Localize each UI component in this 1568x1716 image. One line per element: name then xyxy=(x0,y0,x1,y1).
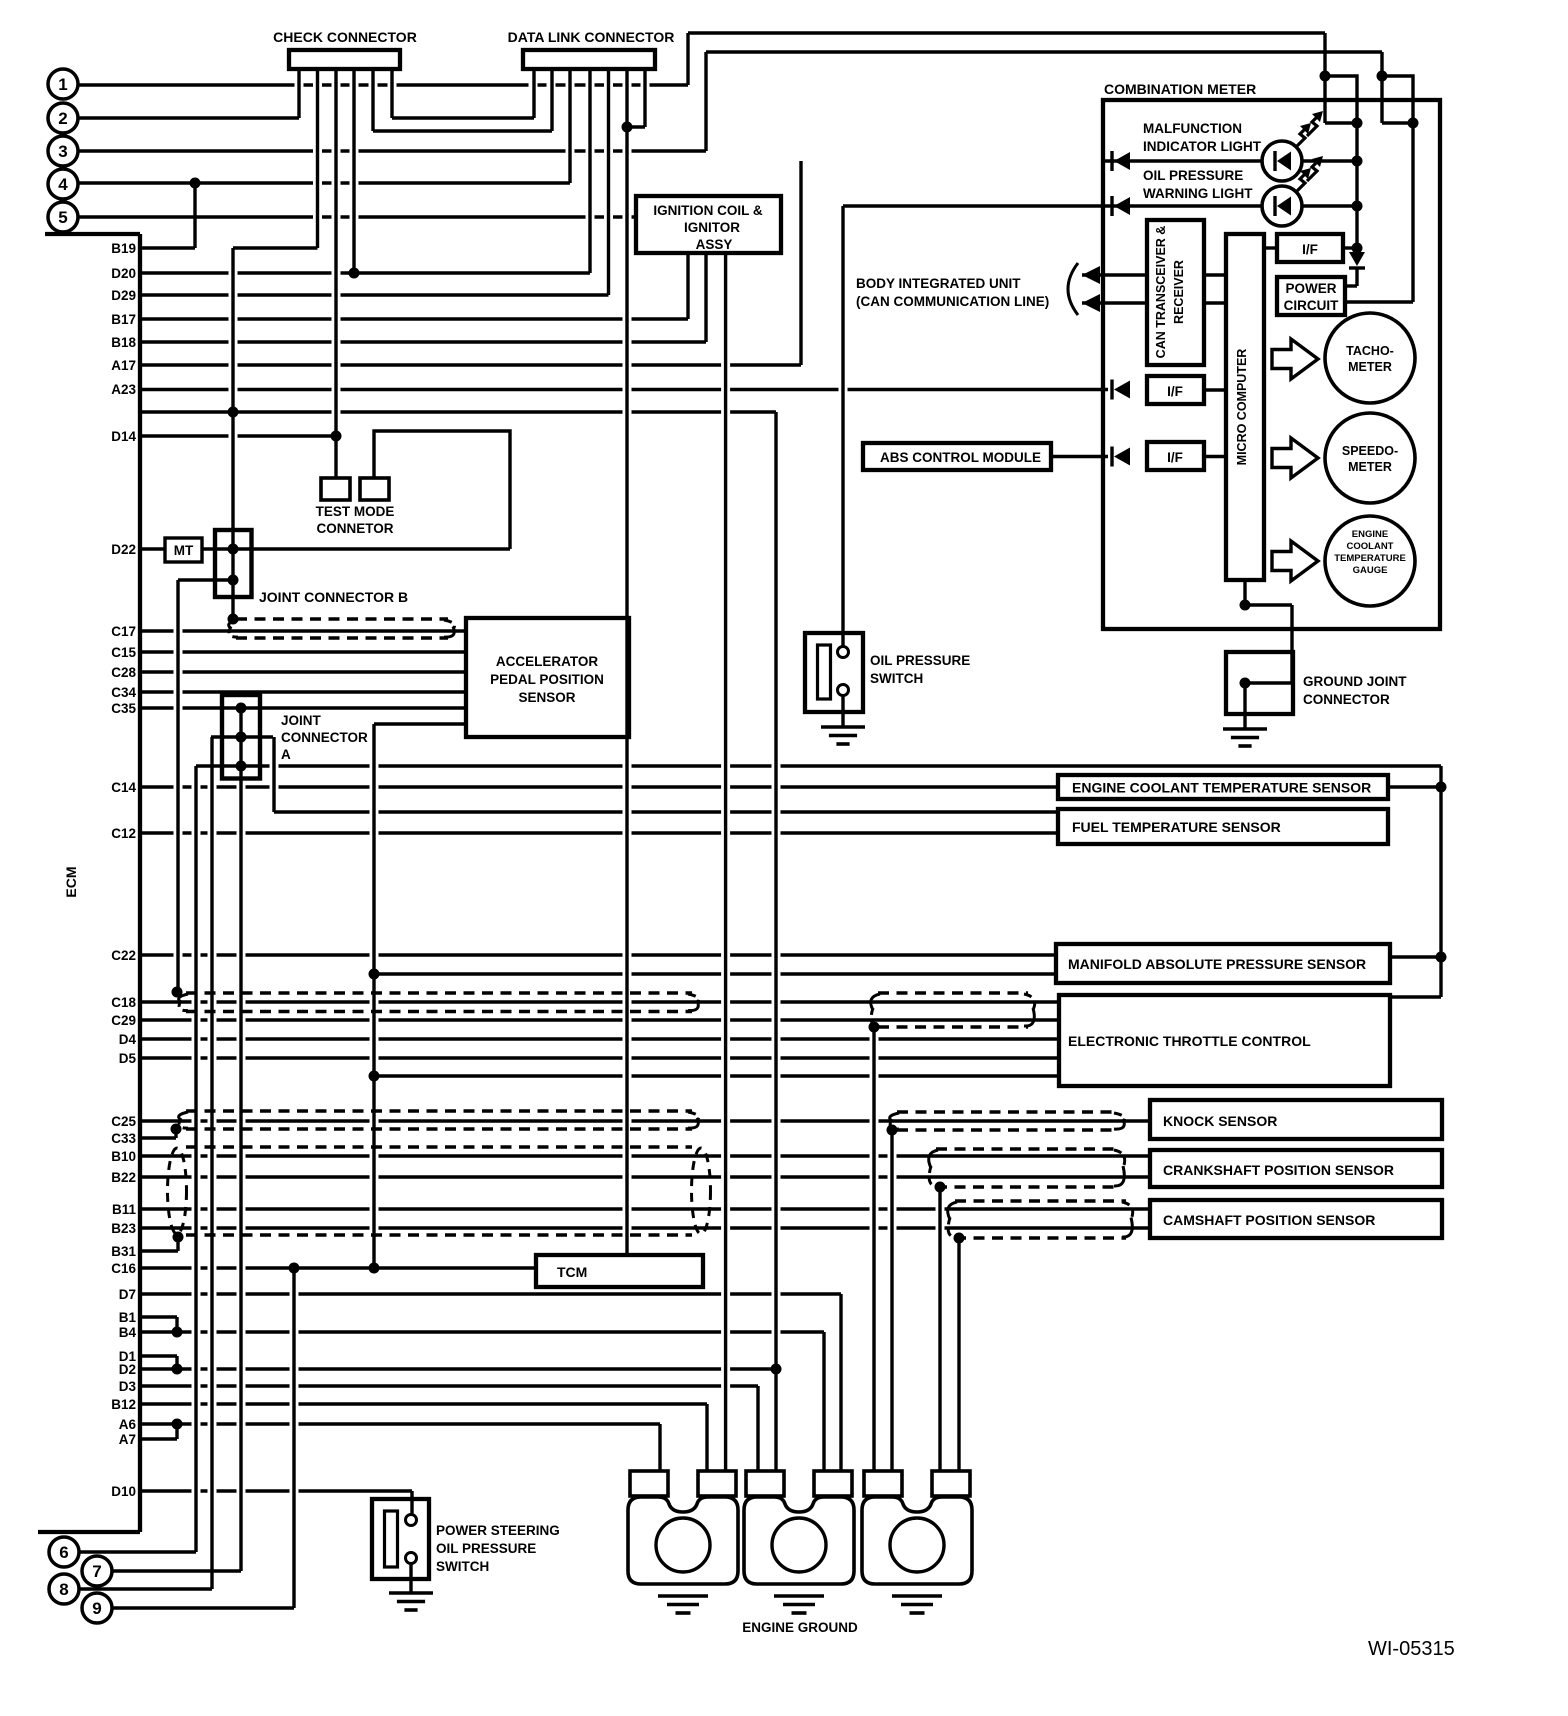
svg-text:D2: D2 xyxy=(119,1362,136,1377)
wire lamp chain x1357 xyxy=(1355,123,1358,252)
svg-text:B11: B11 xyxy=(112,1202,137,1217)
svg-text:B31: B31 xyxy=(111,1244,136,1259)
wire ETC shield drain x875 xyxy=(872,1027,875,1471)
wire accelerator to C16 drop xyxy=(374,724,466,1268)
junction dot C18 right shield xyxy=(869,1022,880,1033)
junction dot C16/circle9 xyxy=(289,1263,300,1274)
wire C35 xyxy=(140,706,466,709)
svg-text:IGNITION COIL &: IGNITION COIL & xyxy=(653,203,763,218)
svg-text:MT: MT xyxy=(174,543,194,558)
svg-text:ASSY: ASSY xyxy=(696,237,733,252)
wire CAN to micro computer xyxy=(1204,275,1226,303)
check connector pin 3 xyxy=(334,69,337,478)
svg-text:SENSOR: SENSOR xyxy=(518,690,575,705)
shield dashes C17 xyxy=(229,619,455,638)
svg-text:C29: C29 xyxy=(111,1013,136,1028)
wire C15 xyxy=(140,650,466,653)
electronic throttle control box xyxy=(1059,995,1390,1086)
svg-text:OIL PRESSURE: OIL PRESSURE xyxy=(1143,168,1243,183)
svg-text:2: 2 xyxy=(58,109,67,128)
svg-text:6: 6 xyxy=(59,1543,68,1562)
wire 3 horizontal run xyxy=(78,149,707,152)
wire D14 xyxy=(140,434,336,437)
wire joint-A left leg xyxy=(210,737,213,1589)
wire B19 xyxy=(140,183,318,248)
joint connector A body xyxy=(222,695,260,779)
wire C16 xyxy=(140,1266,536,1269)
wire joint-A right leg to fuel sensor xyxy=(274,737,1058,812)
svg-text:OIL PRESSURE: OIL PRESSURE xyxy=(870,653,970,668)
power steering oil pressure switch body xyxy=(372,1499,429,1579)
svg-text:KNOCK SENSOR: KNOCK SENSOR xyxy=(1163,1113,1277,1129)
svg-text:CONNETOR: CONNETOR xyxy=(316,521,393,536)
svg-text:MICRO COMPUTER: MICRO COMPUTER xyxy=(1235,349,1249,466)
svg-text:TACHO-: TACHO- xyxy=(1346,344,1394,358)
junction dot knock shield xyxy=(887,1125,898,1136)
ABS control module box xyxy=(863,443,1051,470)
combination meter box xyxy=(1103,100,1440,629)
svg-text:B1: B1 xyxy=(119,1310,137,1325)
svg-text:SWITCH: SWITCH xyxy=(870,671,923,686)
junction dot ground joint xyxy=(1240,678,1251,689)
junction dot MAP sensor xyxy=(1436,952,1447,963)
combination meter label xyxy=(1104,81,1256,97)
svg-text:C15: C15 xyxy=(111,645,136,660)
oil pressure switch ground xyxy=(821,727,865,744)
junction dot pin4/D20 xyxy=(349,268,360,279)
malfunction indicator light label xyxy=(1143,121,1262,154)
svg-text:D14: D14 xyxy=(111,429,136,444)
svg-text:ELECTRONIC THROTTLE CONTROL: ELECTRONIC THROTTLE CONTROL xyxy=(1068,1033,1311,1049)
svg-text:POWER: POWER xyxy=(1285,281,1336,296)
svg-text:4: 4 xyxy=(58,175,68,194)
wire micro to I/F1 xyxy=(1264,246,1357,249)
svg-text:ENGINE GROUND: ENGINE GROUND xyxy=(742,1620,858,1635)
svg-text:ACCELERATOR: ACCELERATOR xyxy=(496,654,599,669)
wire 5 run xyxy=(78,215,637,218)
connector circle 7 xyxy=(82,1556,112,1586)
wire malfunction lamp row xyxy=(1103,159,1357,162)
junction dot cam shield xyxy=(954,1233,965,1244)
wire D1 xyxy=(140,1356,177,1369)
svg-text:D4: D4 xyxy=(119,1032,137,1047)
engine ground lug 1 xyxy=(628,1471,738,1584)
manifold absolute pressure sensor box xyxy=(1056,944,1390,983)
ignition coil label xyxy=(653,203,763,252)
svg-text:ECM: ECM xyxy=(63,866,79,897)
check connector pin 6 U-link xyxy=(392,69,534,118)
junction dot wire1 loop bottom xyxy=(1352,118,1363,129)
data link pin 7 xyxy=(627,69,645,127)
wire circle6 xyxy=(79,1550,197,1553)
svg-text:C33: C33 xyxy=(111,1131,136,1146)
svg-text:ABS CONTROL MODULE: ABS CONTROL MODULE xyxy=(880,450,1041,465)
wire D2 xyxy=(140,1367,776,1370)
wire 3 riser at x706 xyxy=(704,52,707,151)
wire MAP sensor right xyxy=(1390,955,1441,958)
wire B23 xyxy=(140,1226,1150,1229)
junction dot joint-B row2 xyxy=(228,575,239,586)
data link pin 5 xyxy=(607,69,610,295)
shield dashes crank right xyxy=(929,1149,1125,1187)
wire B17 xyxy=(140,253,688,319)
oil pressure switch ground stem xyxy=(841,696,844,728)
crankshaft position sensor box xyxy=(1150,1150,1442,1187)
shield ellipse right xyxy=(692,1148,711,1234)
svg-text:CONNECTOR: CONNECTOR xyxy=(281,730,368,745)
junction dot C17 shield xyxy=(228,614,239,625)
junction dot B31 shield xyxy=(173,1232,184,1243)
svg-text:OIL PRESSURE: OIL PRESSURE xyxy=(436,1541,536,1556)
body integrated unit label xyxy=(856,276,1049,309)
coolant gauge circle xyxy=(1325,516,1415,606)
wire 1 top run xyxy=(688,31,1325,34)
wire C14 xyxy=(140,785,1058,788)
engine ground label xyxy=(742,1620,858,1635)
svg-text:CRANKSHAFT POSITION SENSOR: CRANKSHAFT POSITION SENSOR xyxy=(1163,1162,1394,1178)
wire cam shield drain x959 xyxy=(957,1238,960,1471)
svg-text:ENGINE: ENGINE xyxy=(1352,529,1388,540)
junction dot C18 shield xyxy=(172,987,183,998)
joint connector B body xyxy=(215,530,252,597)
shield dashes C25 left xyxy=(179,1111,699,1129)
svg-text:I/F: I/F xyxy=(1167,384,1183,399)
connector circle 9 xyxy=(82,1593,112,1623)
micro computer label xyxy=(1235,349,1249,466)
svg-text:METER: METER xyxy=(1348,460,1392,474)
svg-text:1: 1 xyxy=(58,75,67,94)
diode to power circuit xyxy=(1345,252,1365,286)
wire 1 drop at x1325 xyxy=(1323,33,1326,123)
wire circle7 xyxy=(112,1569,242,1572)
fuel temperature sensor box xyxy=(1058,809,1388,844)
wire CAN high xyxy=(1082,266,1147,284)
check connector pin 2 xyxy=(316,69,319,248)
junction dot D2/ground drop xyxy=(771,1364,782,1375)
ignition coil & ignitor assy box xyxy=(636,196,781,253)
power circuit feed from wire3 xyxy=(1345,123,1413,302)
junction dot B1/B4 xyxy=(172,1327,183,1338)
svg-text:C22: C22 xyxy=(111,948,136,963)
data link pin 4 xyxy=(588,69,591,273)
svg-text:BODY INTEGRATED UNIT: BODY INTEGRATED UNIT xyxy=(856,276,1021,291)
wire 3 drop at x1382 xyxy=(1380,52,1383,123)
wire D22 xyxy=(140,547,510,550)
junction dot coolant sensor xyxy=(1436,782,1447,793)
accelerator pedal position sensor box xyxy=(466,618,629,737)
oil pressure warning light label xyxy=(1143,168,1253,201)
ground joint connector label xyxy=(1303,674,1407,707)
data link connector body xyxy=(523,50,655,69)
svg-text:IGNITOR: IGNITOR xyxy=(684,220,740,235)
wire 4 run xyxy=(78,181,571,184)
power steering switch ground xyxy=(389,1593,433,1610)
check connector label xyxy=(273,29,417,45)
svg-text:B12: B12 xyxy=(111,1397,136,1412)
ground joint ground symbol xyxy=(1223,729,1267,746)
ignition coil pin 3 drop to engine ground xyxy=(724,253,727,1471)
svg-text:B18: B18 xyxy=(111,335,136,350)
joint connector B label xyxy=(259,589,408,605)
joint connector A label xyxy=(281,713,368,762)
wire D29 xyxy=(140,293,609,296)
shield dashes C25 right xyxy=(890,1112,1125,1130)
svg-text:SWITCH: SWITCH xyxy=(436,1559,489,1574)
tachometer arrow xyxy=(1272,339,1318,379)
wire oil warning row xyxy=(843,204,1357,207)
svg-text:PEDAL POSITION: PEDAL POSITION xyxy=(490,672,604,687)
junction dot C16/accel xyxy=(369,1263,380,1274)
wire C34 xyxy=(140,690,466,693)
speedometer arrow xyxy=(1272,438,1318,478)
wire 1 crossover loop xyxy=(1325,76,1357,123)
svg-text:CAN TRANSCEIVER &: CAN TRANSCEIVER & xyxy=(1154,226,1168,359)
svg-text:JOINT CONNECTOR B: JOINT CONNECTOR B xyxy=(259,589,408,605)
svg-text:D7: D7 xyxy=(119,1287,136,1302)
I/F box 2 xyxy=(1147,376,1204,404)
svg-text:D22: D22 xyxy=(111,542,136,557)
svg-text:B4: B4 xyxy=(119,1325,137,1340)
shield dashes cam right xyxy=(948,1201,1133,1238)
wire CAN low xyxy=(1082,294,1147,312)
wire C22 xyxy=(140,953,1056,956)
wire joint-B drop x233 xyxy=(231,248,234,619)
svg-text:DATA LINK CONNECTOR: DATA LINK CONNECTOR xyxy=(508,29,675,45)
svg-text:7: 7 xyxy=(92,1562,101,1581)
svg-text:TCM: TCM xyxy=(557,1264,587,1280)
wire D5 xyxy=(140,1056,1059,1059)
data link connector label xyxy=(508,29,675,45)
junction dot joint-A C35 xyxy=(236,703,247,714)
svg-text:RECEIVER: RECEIVER xyxy=(1172,260,1186,324)
check connector pin 5 U-link xyxy=(373,69,552,131)
wire B4 xyxy=(140,1332,824,1471)
shield dashes C18 right xyxy=(871,993,1035,1027)
junction dot joint-A row2 xyxy=(236,732,247,743)
power steering switch ground stem xyxy=(409,1564,412,1594)
junction dot wire3 loop top xyxy=(1377,71,1388,82)
wire circle8 xyxy=(79,1587,213,1590)
micro computer box xyxy=(1226,234,1264,580)
wire joint-A center xyxy=(239,708,242,1571)
svg-text:B17: B17 xyxy=(111,312,136,327)
wire B12 xyxy=(140,1404,707,1471)
svg-text:JOINT: JOINT xyxy=(281,713,322,728)
svg-text:MANIFOLD ABSOLUTE PRESSURE SEN: MANIFOLD ABSOLUTE PRESSURE SENSOR xyxy=(1068,956,1366,972)
wire crank shield drain x940 xyxy=(938,1187,941,1471)
wire C29 xyxy=(140,1018,1059,1021)
shield dashes C18 left xyxy=(179,993,699,1012)
connector circle 5 xyxy=(48,202,78,232)
I/F box 1 xyxy=(1277,234,1343,262)
junction dot wire3 loop bottom xyxy=(1408,118,1419,129)
wire coolant sensor right xyxy=(1388,785,1441,788)
joint connector A second body xyxy=(211,735,273,738)
junction dot C33 shield xyxy=(171,1124,182,1135)
junction dot joint-A row3 xyxy=(236,761,247,772)
engine ground lug 3 xyxy=(862,1471,972,1584)
svg-text:B10: B10 xyxy=(111,1149,136,1164)
check connector pin 1 xyxy=(297,69,300,118)
accelerator sensor label xyxy=(490,654,604,705)
wire B11 xyxy=(140,1207,1150,1210)
connector circle 4 xyxy=(48,169,78,199)
svg-text:C18: C18 xyxy=(111,995,136,1010)
ground joint connector box xyxy=(1226,652,1293,714)
wire unlabeled y974 xyxy=(374,972,1056,975)
test mode connector box 2 xyxy=(360,478,389,500)
wire A23 to I/F xyxy=(140,388,1108,391)
test mode connector box 1 xyxy=(321,478,350,500)
svg-text:C16: C16 xyxy=(111,1261,136,1276)
wire circle9 xyxy=(112,1268,295,1608)
junction dot x233/w412 xyxy=(228,407,239,418)
wire warning-light drop x776 xyxy=(774,412,777,1471)
connector circle 2 xyxy=(48,103,78,133)
junction dot D1/D2 xyxy=(172,1364,183,1375)
ECM pin labels column xyxy=(111,241,136,1499)
svg-text:D5: D5 xyxy=(119,1051,137,1066)
wire B31 xyxy=(140,1237,178,1251)
connector circle 3 xyxy=(48,136,78,166)
svg-text:B19: B19 xyxy=(111,241,136,256)
svg-text:CIRCUIT: CIRCUIT xyxy=(1284,298,1339,313)
data link pin 3 xyxy=(568,69,571,183)
wire joint-A row3 long run xyxy=(196,766,1441,1552)
svg-text:COOLANT: COOLANT xyxy=(1347,541,1394,552)
svg-text:A23: A23 xyxy=(111,382,136,397)
engine coolant temperature sensor box xyxy=(1058,775,1388,799)
junction dot A6/A7 xyxy=(172,1419,183,1430)
svg-text:ENGINE COOLANT TEMPERATURE SEN: ENGINE COOLANT TEMPERATURE SENSOR xyxy=(1072,780,1371,796)
connector circle 1 xyxy=(48,69,78,99)
svg-text:8: 8 xyxy=(59,1580,68,1599)
svg-text:METER: METER xyxy=(1348,360,1392,374)
svg-text:C17: C17 xyxy=(111,624,136,639)
wire C25 xyxy=(140,1119,1150,1122)
svg-text:POWER STEERING: POWER STEERING xyxy=(436,1523,560,1538)
wire C28 xyxy=(140,670,466,673)
camshaft position sensor box xyxy=(1150,1200,1442,1238)
connector circle 6 xyxy=(49,1537,79,1567)
svg-text:WI-05315: WI-05315 xyxy=(1368,1638,1455,1660)
svg-text:MALFUNCTION: MALFUNCTION xyxy=(1143,121,1242,136)
wire D20 xyxy=(140,271,590,274)
svg-text:B23: B23 xyxy=(111,1221,136,1236)
svg-text:A17: A17 xyxy=(111,358,136,373)
wire shield drain x178 xyxy=(176,580,179,992)
wire D4 xyxy=(140,1037,1059,1040)
svg-text:INDICATOR LIGHT: INDICATOR LIGHT xyxy=(1143,139,1262,154)
svg-text:FUEL TEMPERATURE SENSOR: FUEL TEMPERATURE SENSOR xyxy=(1072,819,1281,835)
oil pressure switch body xyxy=(805,633,863,712)
svg-text:I/F: I/F xyxy=(1167,450,1183,465)
CAN bracket arc xyxy=(1068,263,1078,315)
svg-text:9: 9 xyxy=(92,1599,101,1618)
document number WI-05315 xyxy=(1368,1638,1455,1660)
engine ground lug 2 xyxy=(744,1471,854,1584)
power steering switch label xyxy=(436,1523,560,1574)
oil pressure switch label xyxy=(870,653,970,686)
svg-text:C34: C34 xyxy=(111,685,136,700)
junction dot OIL row xyxy=(1352,201,1363,212)
svg-text:TEMPERATURE: TEMPERATURE xyxy=(1334,553,1406,564)
wire micro computer ground jog xyxy=(1245,580,1292,729)
svg-text:5: 5 xyxy=(58,208,67,227)
shield ellipse left xyxy=(168,1148,187,1234)
svg-text:C12: C12 xyxy=(111,826,136,841)
data link pin 6 long drop to TCM xyxy=(625,69,628,1255)
wire 2 run xyxy=(78,116,300,119)
MT box xyxy=(165,538,202,562)
knock sensor box xyxy=(1150,1100,1442,1139)
tachometer circle xyxy=(1325,313,1415,403)
wire ABS to I/F xyxy=(1051,455,1108,458)
junction dot crank shield xyxy=(935,1182,946,1193)
wire unlabeled y412 xyxy=(140,410,776,413)
speedometer circle xyxy=(1325,413,1415,503)
diode malfunction row xyxy=(1112,151,1130,171)
check connector pin 4 xyxy=(352,69,355,273)
svg-text:WARNING LIGHT: WARNING LIGHT xyxy=(1143,186,1253,201)
svg-text:GROUND JOINT: GROUND JOINT xyxy=(1303,674,1407,689)
diode I/F3 xyxy=(1112,447,1130,467)
ECM controller left edge xyxy=(38,234,140,1532)
svg-text:CAMSHAFT POSITION SENSOR: CAMSHAFT POSITION SENSOR xyxy=(1163,1212,1375,1228)
diode oil warning row xyxy=(1112,196,1130,216)
svg-text:3: 3 xyxy=(58,142,67,161)
engine ground symbol 2 xyxy=(774,1596,824,1613)
svg-text:D29: D29 xyxy=(111,288,136,303)
svg-text:CHECK CONNECTOR: CHECK CONNECTOR xyxy=(273,29,417,45)
junction dot MIL row xyxy=(1352,156,1363,167)
power circuit box xyxy=(1277,277,1345,315)
test mode connector label xyxy=(316,504,395,536)
wire D10 xyxy=(140,1491,412,1515)
svg-text:D20: D20 xyxy=(111,266,136,281)
wire D3 xyxy=(140,1386,758,1471)
wire C33 xyxy=(140,1129,176,1138)
svg-text:A: A xyxy=(281,747,291,762)
CAN transceiver & receiver box xyxy=(1147,220,1204,365)
wire A17 to malfunction lamp xyxy=(140,161,801,365)
wire 3 crossover loop xyxy=(1382,76,1413,123)
svg-text:B22: B22 xyxy=(111,1170,136,1185)
wire 3 top run xyxy=(706,50,1382,53)
wire D7 xyxy=(140,1294,841,1471)
junction dot I/F row xyxy=(1352,243,1363,254)
engine ground symbol 3 xyxy=(892,1596,942,1613)
junction dot y974 xyxy=(369,969,380,980)
junction dot wire1 loop top xyxy=(1320,71,1331,82)
wire A7 xyxy=(140,1424,177,1439)
wire joint-B row2 xyxy=(178,578,233,581)
wire B10 xyxy=(140,1154,1150,1157)
wire C12 xyxy=(140,831,1058,834)
shield dashes crank-cam bundle xyxy=(186,1147,692,1235)
test mode frame wire xyxy=(374,431,510,549)
wire B22 xyxy=(140,1175,1150,1178)
svg-text:(CAN COMMUNICATION LINE): (CAN COMMUNICATION LINE) xyxy=(856,294,1049,309)
junction dot pin3/D14 xyxy=(331,431,342,442)
junction dot wire4/B19 xyxy=(190,178,201,189)
svg-text:COMBINATION METER: COMBINATION METER xyxy=(1104,81,1256,97)
junction dot data pins 6+7 xyxy=(622,122,633,133)
wire B1 xyxy=(140,1317,177,1332)
junction dot y1076 xyxy=(369,1071,380,1082)
svg-text:SPEEDO-: SPEEDO- xyxy=(1342,444,1398,458)
LED oil pressure warning xyxy=(1262,156,1323,226)
